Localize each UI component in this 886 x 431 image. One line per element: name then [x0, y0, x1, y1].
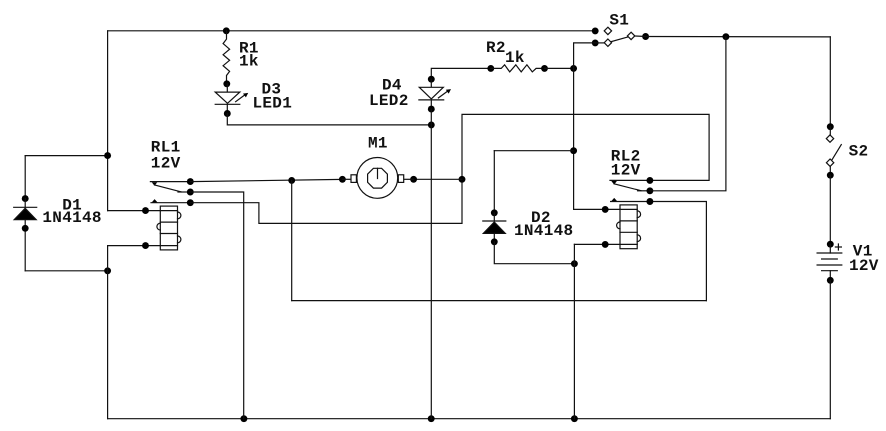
- RL1 middle contact line: [178, 191, 190, 193]
- svg-text:1k: 1k: [239, 53, 259, 71]
- RL2 common contact line: [610, 179, 650, 181]
- diode D1 1N4148 symbol: [14, 195, 37, 232]
- M1 right lead: [404, 178, 414, 180]
- RL2 coil winding lines: [620, 209, 637, 244]
- wire RL2 exit vertical to bottom rail: [573, 244, 575, 418]
- M1 left lead: [342, 178, 351, 180]
- wire S2 to battery: [829, 175, 831, 244]
- svg-text:LED2: LED2: [369, 92, 409, 110]
- RL1 coil right bump 2: [178, 236, 181, 243]
- node junction D2 top / vertical: [570, 147, 577, 154]
- wire top rail left: [108, 30, 596, 32]
- wire RL1 bottom contact to motor-right net: [190, 114, 709, 223]
- node bottom rail junction x=574.4: [571, 415, 578, 422]
- S1 top-left contact diamond: [604, 27, 611, 34]
- RL2 coil box: [620, 205, 637, 249]
- RL2 middle contact line: [638, 190, 650, 192]
- node junction wire A / top right rail: [722, 33, 729, 40]
- wire left vertical lower segment: [107, 246, 109, 419]
- wire D1 top horizontal: [25, 155, 107, 157]
- svg-text:LED1: LED1: [253, 95, 293, 113]
- RL2 blade: [614, 184, 641, 191]
- node junction D1 bottom / left vertical: [104, 267, 111, 274]
- RL1 coil right bump 1: [178, 212, 181, 219]
- M1 rotor line: [377, 168, 379, 178]
- node R2 left pin: [487, 65, 494, 72]
- LED D4 symbol: [419, 79, 451, 109]
- node RL2 middle pin: [646, 187, 653, 194]
- svg-text:1N4148: 1N4148: [42, 209, 101, 227]
- M1 inner octagon: [368, 168, 388, 188]
- node motor right pin: [410, 176, 417, 183]
- node D1 bottom pin: [22, 225, 29, 232]
- wire RL1 coil entry: [108, 210, 161, 212]
- S2 bottom contact diamond: [826, 159, 833, 166]
- node RL1 middle pin: [187, 189, 194, 196]
- RL2 pivot arrow: [611, 181, 617, 185]
- wire RL2 coil exit horizontal: [574, 243, 620, 245]
- switch S2: [826, 37, 841, 179]
- wire RL1 coil exit: [108, 245, 161, 247]
- wire top rail corner down to S2: [829, 37, 831, 127]
- V1 lead wires: [829, 244, 831, 280]
- wire RL2 middle contact to top rail (wire A): [650, 37, 726, 191]
- relay RL2: [602, 177, 654, 249]
- RL2 coil right bump 2: [637, 235, 640, 242]
- RL2 coil left bump: [617, 222, 620, 229]
- node junction motor-right / wire B vertical: [459, 176, 466, 183]
- node junction R2 / S1 vertical: [570, 65, 577, 72]
- wire vertical x=573.6 down to RL2 coil entry: [574, 68, 620, 209]
- S2 top contact diamond: [826, 135, 833, 142]
- motor M1: [342, 158, 413, 199]
- node RL2 coil exit pin: [602, 241, 609, 248]
- node RL2 bottom pin: [646, 198, 653, 205]
- RL1 bottom contact line: [151, 202, 190, 204]
- node RL1 bottom pin: [187, 199, 194, 206]
- node V1 bottom pin: [827, 277, 834, 284]
- wire D1 bottom horizontal: [25, 270, 107, 272]
- wire S1 bottom-left pin stub: [595, 42, 604, 44]
- wire D2 top vertical: [493, 151, 495, 213]
- node S1 right pin: [642, 33, 649, 40]
- RL2 bottom contact line: [611, 201, 650, 203]
- node D4 bottom pin: [428, 106, 435, 113]
- battery V1: [817, 241, 842, 284]
- wire S1 bottom-left throw down: [574, 43, 596, 69]
- node R1 top pin on top rail: [223, 27, 230, 34]
- RL1 pivot arrow: [152, 182, 158, 186]
- wire vertical x=706.4 up to RL2 bottom contact: [650, 202, 707, 301]
- node RL2 common pin: [646, 177, 653, 184]
- RL1 common contact line: [150, 181, 190, 183]
- svg-text:1k: 1k: [505, 49, 525, 67]
- resistor R2 1k horizontal zigzag: [491, 65, 545, 72]
- svg-text:1N4148: 1N4148: [514, 222, 573, 240]
- V1 long plate 2: [817, 264, 842, 266]
- node bottom rail junction x=431.2: [428, 415, 435, 422]
- node RL1 coil exit pin: [142, 242, 149, 249]
- wire D2 bottom to junction: [494, 242, 574, 264]
- wire R2 right to vertical: [545, 67, 574, 69]
- node D3 bottom pin: [224, 110, 231, 117]
- wire left vertical upper segment: [107, 31, 109, 211]
- node RL2 coil entry pin: [602, 206, 609, 213]
- S1 blade: [611, 37, 628, 42]
- node S2 bottom pin: [827, 172, 834, 179]
- node junction D3 wire / D4 vertical: [428, 121, 435, 128]
- RL2 coil right bump 1: [637, 211, 640, 218]
- RL1 NO arrow: [152, 199, 158, 202]
- wire S2 bottom stub: [829, 166, 831, 175]
- node junction D2 bottom / RL2 exit vertical: [571, 260, 578, 267]
- node junction motor-left wire / vertical x=291.7: [288, 177, 295, 184]
- wire RL1 middle contact down to bottom rail: [190, 192, 243, 419]
- wire D2 top horizontal: [494, 150, 573, 152]
- M1 outer circle: [357, 158, 398, 199]
- M1 right terminal tab: [398, 175, 403, 183]
- node R2 right pin: [541, 65, 548, 72]
- wire top rail right: [646, 36, 831, 38]
- node S1 left top pin: [592, 27, 599, 34]
- node D4 top pin: [428, 76, 435, 83]
- node bottom rail junction x=243.7: [240, 415, 247, 422]
- S1 bottom-left contact diamond: [604, 39, 611, 46]
- svg-text:S1: S1: [609, 11, 629, 29]
- node RL1 common pin: [187, 178, 194, 185]
- resistor R1 1k vertical zigzag: [223, 31, 230, 84]
- S1 pole diamond: [627, 32, 634, 39]
- wire horizontal y=300.6: [292, 300, 707, 302]
- node RL1 coil entry pin: [142, 207, 149, 214]
- relay RL1: [142, 178, 194, 250]
- svg-text:12V: 12V: [849, 257, 879, 275]
- node junction D1 top / left vertical: [104, 152, 111, 159]
- svg-text:R2: R2: [486, 39, 506, 57]
- wire R2 left to D4 top: [431, 68, 491, 79]
- V1 short plate 1: [822, 258, 838, 260]
- wire D3 bottom to junction: [227, 114, 431, 125]
- wire D4 bottom vertical to bottom rail: [430, 109, 432, 419]
- wire battery to bottom rail: [829, 280, 831, 418]
- RL1 coil box: [160, 206, 177, 250]
- switch S1: [592, 27, 649, 46]
- node D1 top pin: [22, 195, 29, 202]
- RL1 coil left bump: [157, 223, 160, 230]
- LED D3 symbol: [215, 84, 248, 114]
- svg-text:12V: 12V: [611, 162, 641, 180]
- node S2 top pin: [827, 123, 834, 130]
- V1 short plate 2: [822, 270, 838, 272]
- svg-text:12V: 12V: [151, 155, 181, 173]
- node D2 bottom pin: [491, 238, 498, 245]
- wire S1 pole stub: [635, 35, 646, 38]
- V1 plus sign: [835, 244, 841, 250]
- svg-text:S2: S2: [849, 143, 869, 161]
- V1 long plate 1: [817, 252, 842, 254]
- diode D2 1N4148 symbol: [483, 213, 506, 242]
- M1 left terminal tab: [351, 175, 356, 183]
- wire D1 upper vertical: [24, 156, 26, 199]
- wire bottom rail: [108, 418, 831, 420]
- node D2 top pin: [491, 209, 498, 216]
- RL1 coil winding lines: [160, 211, 177, 246]
- node motor left pin: [339, 176, 346, 183]
- RL2 NO arrow: [611, 198, 617, 201]
- svg-text:RL1: RL1: [151, 138, 181, 156]
- svg-text:M1: M1: [368, 135, 388, 153]
- node V1 top pin: [827, 241, 834, 248]
- wire RL1 common to motor left: [190, 179, 342, 181]
- wire vertical x=291.7 down: [291, 180, 293, 300]
- S2 blade: [832, 145, 841, 160]
- RL1 blade: [155, 185, 182, 192]
- node S1 left bottom pin: [592, 39, 599, 46]
- wire motor right to junction: [414, 178, 462, 180]
- wire D1 lower vertical: [24, 228, 26, 270]
- wire S2 top stub: [829, 127, 831, 135]
- node R1 bottom pin: [223, 80, 230, 87]
